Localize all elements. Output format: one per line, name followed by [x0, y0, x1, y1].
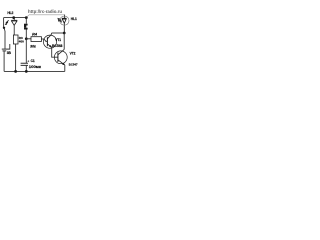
- wire top rail: [4, 17, 27, 19]
- node bottom rail middle: [25, 70, 28, 73]
- resistor R4 box: [31, 37, 41, 42]
- wire junction to R4: [26, 38, 31, 40]
- svg-text:BC548: BC548: [52, 44, 63, 48]
- transistor VT2: [54, 49, 67, 64]
- wire left vertical: [3, 18, 5, 28]
- wire R4 to VT1 base: [41, 39, 47, 41]
- battery GB1 plate short: [3, 50, 7, 52]
- node top rail / VD1: [12, 16, 15, 19]
- wire switch to battery: [4, 31, 6, 49]
- wire VT1 emitter down: [52, 47, 58, 57]
- svg-text:http://rc-radio.ru: http://rc-radio.ru: [28, 9, 62, 14]
- svg-text:HL2: HL2: [7, 11, 13, 15]
- svg-text:VT2: VT2: [70, 52, 76, 56]
- svg-text:BC547: BC547: [69, 63, 78, 67]
- wire thin upper rail: [29, 14, 65, 16]
- capacitor element middle: [24, 24, 28, 30]
- wire middle to C1: [25, 39, 27, 63]
- svg-text:R4: R4: [32, 32, 37, 36]
- switch SA1 lever: [3, 29, 6, 31]
- wire VT2 emitter to rail: [64, 65, 66, 72]
- VT1 emitter arrow: [49, 45, 52, 48]
- LED HL1 circle: [60, 16, 69, 25]
- transistor VT1: [43, 33, 56, 48]
- svg-text:3B: 3B: [7, 51, 12, 55]
- wire link rail to upper thin rail: [26, 15, 29, 18]
- wire battery to bottom rail: [3, 51, 5, 71]
- node right net: [63, 32, 66, 35]
- VT2 emitter arrow: [62, 63, 65, 66]
- battery GB1 plate long: [2, 48, 10, 50]
- LED HL1: [62, 18, 67, 32]
- svg-text:400: 400: [19, 39, 24, 43]
- node switch contact: [3, 27, 5, 29]
- wire R3 to bottom rail: [15, 44, 17, 71]
- wire bottom rail: [4, 70, 65, 72]
- wire middle down: [25, 18, 27, 24]
- svg-text:30к: 30к: [30, 45, 36, 49]
- node bottom rail left: [14, 70, 17, 73]
- wire battery stub right: [9, 44, 11, 49]
- wire right net down: [63, 33, 65, 49]
- capacitor C1 plus: [27, 60, 29, 62]
- wire C1 to rail: [25, 65, 27, 71]
- node top rail middle: [25, 16, 28, 19]
- wire VT1 collector to node: [52, 32, 65, 34]
- diode VD1: [11, 18, 17, 35]
- HL1 arrows: [57, 18, 62, 23]
- svg-text:100мк: 100мк: [29, 65, 41, 69]
- svg-text:VT1: VT1: [55, 38, 61, 42]
- wire HL1 top: [64, 15, 66, 19]
- node middle junction: [25, 37, 28, 40]
- svg-text:HL1: HL1: [71, 17, 77, 21]
- LED HL2 arrows: [5, 20, 9, 25]
- resistor R3 box: [13, 35, 18, 44]
- capacitor C1 plates: [21, 63, 28, 65]
- wire middle down 2: [25, 30, 27, 39]
- svg-text:C1: C1: [31, 59, 35, 63]
